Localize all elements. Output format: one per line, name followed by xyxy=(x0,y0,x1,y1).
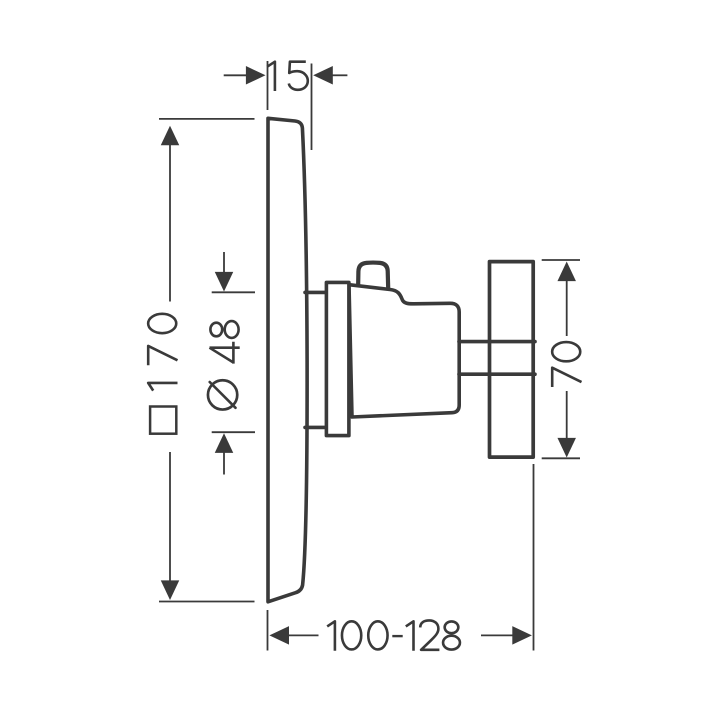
dim 15: left arrowhead xyxy=(246,66,266,85)
safety-stop knob on cartridge top xyxy=(358,263,388,289)
dim 170: bottom extension line xyxy=(159,601,255,603)
dim 100-128: right arrowhead (points right) xyxy=(512,626,532,645)
dim 70: top tick line xyxy=(542,259,580,261)
dim 70: label xyxy=(552,342,581,387)
dim 170: label xyxy=(148,314,177,391)
dim 70: top arrowhead (points up) xyxy=(557,262,576,282)
dim 100-128: left arrowhead (points left) xyxy=(269,626,289,645)
thermostat cartridge body xyxy=(349,285,459,417)
handle stem lower line xyxy=(459,372,535,376)
sleeve upper line (plate to flange) xyxy=(305,291,327,295)
dim 170: upper dimension line xyxy=(169,143,171,302)
dim 48: upper arrowhead (points down) xyxy=(215,272,234,292)
mounting flange xyxy=(326,282,349,435)
dim 48: label xyxy=(208,321,240,409)
dim 48: lower arrowhead (points up) xyxy=(215,433,234,453)
dim 100-128: label xyxy=(327,620,460,650)
dim 15: left leader line xyxy=(224,74,247,76)
handle stem upper line xyxy=(459,340,535,344)
dim 100-128: left dimension line xyxy=(288,634,319,636)
dim 170: top extension line xyxy=(159,118,255,120)
sleeve lower line (plate to flange) xyxy=(305,426,327,430)
dim 15: right leader line xyxy=(332,74,347,76)
dim 15: right extension line xyxy=(311,64,313,151)
cross handle (side view bar) xyxy=(490,262,534,458)
escutcheon wall plate (side view) xyxy=(268,118,307,602)
dim 100-128: right extension line xyxy=(533,464,535,651)
dim 100-128: right dimension line xyxy=(481,634,513,636)
dim 70: upper dimension line xyxy=(566,279,568,336)
dim 48: upper leader line xyxy=(223,252,225,274)
dim 70: bottom tick line xyxy=(542,457,580,459)
dim 70: bottom arrowhead (points down) xyxy=(557,438,576,458)
dim 48: bottom tick line xyxy=(212,431,255,433)
dim 15: left extension line xyxy=(267,61,269,110)
dim 170: lower dimension line xyxy=(169,452,171,582)
dim 15: label xyxy=(267,62,308,91)
dim 48: lower leader line xyxy=(223,451,225,475)
dim 48: top tick line xyxy=(212,291,255,293)
dim 15: right arrowhead xyxy=(313,66,333,85)
dim 100-128: left extension line xyxy=(267,610,269,651)
dim 170: bottom arrowhead xyxy=(161,580,180,600)
dim 170: top arrowhead xyxy=(161,126,180,146)
dim 70: lower dimension line xyxy=(566,391,568,440)
dim 170: square symbol xyxy=(150,407,176,434)
